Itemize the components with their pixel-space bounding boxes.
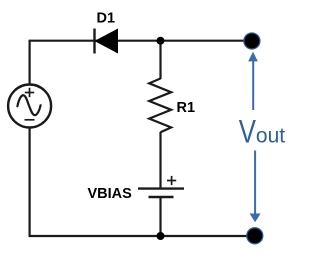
svg-text:VBIAS: VBIAS <box>88 186 133 202</box>
battery VBIAS long plate <box>138 187 184 189</box>
resistor R1 zigzag <box>149 79 171 133</box>
battery plus sign <box>167 176 176 185</box>
wire bottom <box>29 235 250 237</box>
ac source plus sign <box>25 88 34 97</box>
diode D1 triangle <box>96 29 118 52</box>
vout arrow up <box>248 52 258 110</box>
wire left lower <box>29 127 31 237</box>
junction node top <box>157 37 165 45</box>
svg-text:R1: R1 <box>177 100 196 116</box>
output terminal bottom <box>247 228 263 244</box>
junction node bottom <box>157 232 165 240</box>
ac source sine wave <box>17 95 40 115</box>
svg-text:V: V <box>239 114 257 150</box>
battery VBIAS short plate <box>149 196 174 198</box>
wire middle below battery <box>159 197 161 237</box>
output terminal top <box>244 33 260 49</box>
diode D1 cathode bar <box>93 29 95 54</box>
wire middle between R1 and battery <box>159 132 161 188</box>
svg-text:out: out <box>256 125 285 148</box>
wire left upper <box>29 40 31 85</box>
wire middle branch upper <box>159 41 161 79</box>
svg-text:D1: D1 <box>97 11 116 27</box>
vout arrow down <box>250 151 261 223</box>
wire top <box>30 40 253 42</box>
ac source minus sign <box>25 119 35 121</box>
ac source V1 circle <box>8 85 51 128</box>
